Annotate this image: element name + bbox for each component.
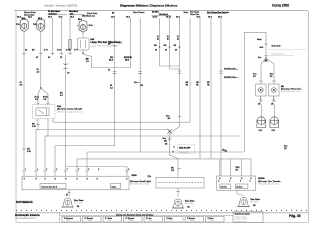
svg-text:(X) Interr. Lamp. Dirección: (X) Interr. Lamp. Dirección: [57, 110, 83, 113]
junction dots right cluster: [159, 46, 161, 48]
svg-text:5: 5: [240, 180, 241, 182]
svg-text:30-8: 30-8: [109, 60, 113, 62]
svg-text:1/5: 1/5: [253, 205, 256, 207]
headlamp E1 (left): [16, 18, 28, 32]
wire lamp E19 to box: [82, 32, 84, 38]
svg-text:XXX 30 XXP: XXX 30 XXP: [179, 147, 191, 149]
svg-text:4: 4: [250, 179, 251, 182]
svg-text:Xxx: Xxx: [170, 220, 173, 222]
svg-text:5: 5: [88, 169, 89, 171]
svg-text:2.5: 2.5: [37, 71, 40, 73]
wire x179.5: [170, 18, 180, 178]
svg-text:Iluminação Externa: Iluminação Externa: [15, 213, 40, 217]
connector ticks on merged wire: [178, 70, 182, 72]
svg-text:0.5: 0.5: [270, 76, 273, 78]
svg-text:7: 7: [67, 169, 68, 171]
svg-text:0.5: 0.5: [35, 99, 38, 101]
svg-text:0.35: 0.35: [32, 126, 36, 128]
tick and label on wire x179.5 low: [178, 116, 182, 118]
svg-text:(X) Lamp. Tipo Trasera: (X) Lamp. Tipo Trasera: [258, 184, 279, 186]
svg-text:1/8: 1/8: [164, 140, 167, 142]
svg-text:Xxxxxxx xxxx xx: Xxxxxxx xxxx xx: [272, 53, 286, 55]
connector box E1000: [217, 176, 256, 190]
tick on x114.6 upper: [113, 45, 117, 47]
S14 bottom pin ticks: [37, 119, 40, 121]
svg-text:XXXXXX-XXs ---: XXXXXX-XXs ---: [224, 69, 239, 71]
annotation note box mid: [178, 144, 195, 154]
svg-text:30: 30: [67, 73, 69, 75]
E1000 feed wires: [219, 159, 221, 176]
svg-text:(X) Lamp. Placa # Lic.: (X) Lamp. Placa # Lic.: [281, 91, 301, 93]
svg-text:0.5: 0.5: [60, 95, 63, 97]
svg-text:1/5: 1/5: [168, 118, 171, 120]
earth point bell right: [237, 197, 260, 206]
titleblock top line: [16, 212, 309, 214]
wire supply col mid x65.5: [65, 55, 67, 170]
lamp E9 right: [269, 84, 280, 96]
wire split left branch: [38, 88, 41, 105]
wire split right branch: [41, 88, 48, 105]
tail lamp bulb left: [257, 105, 266, 133]
svg-text:2 F30: 2 F30: [66, 49, 71, 51]
E1000 top pin marks: [219, 178, 252, 180]
svg-text:36-8: 36-8: [28, 16, 32, 18]
svg-text:Xxx ---: Xxx ---: [134, 82, 140, 84]
earth point bell mid: [172, 199, 195, 208]
license lamp loop top: [244, 32, 266, 152]
tick on headlamp wire low: [22, 148, 26, 150]
svg-text:30: 30: [175, 50, 177, 52]
tail lamp bulb right: [270, 105, 279, 133]
svg-text:30: 30: [165, 50, 167, 52]
svg-text:1/5: 1/5: [235, 170, 238, 172]
svg-text:Xxx Xxxxxx: Xxx Xxxxxx: [218, 12, 230, 14]
svg-text:Xxx. Xxxx: Xxx. Xxxx: [185, 203, 193, 205]
svg-text:Versão / Version 1997/02: Versão / Version 1997/02: [44, 3, 78, 7]
wire number labels row: [17, 15, 222, 18]
svg-text:Xxx Xx Xxx Xx X: Xxx Xx Xxx Xx X: [42, 186, 58, 188]
connector strip X50 (dashes): [156, 178, 204, 189]
svg-text:1/5: 1/5: [187, 206, 190, 208]
fuse row terminal ticks: [22, 53, 71, 55]
wire S14 left pin down: [36, 121, 38, 130]
svg-text:Xxx: Xxx: [211, 220, 214, 222]
titleblock divider: [59, 213, 61, 223]
wire x190: [189, 18, 191, 122]
junction X on headlamp wire: [38, 87, 48, 105]
ground wire below E1000: [236, 190, 238, 194]
svg-text:Corsa 2002: Corsa 2002: [272, 3, 289, 7]
lamp E9 left (license plate): [256, 84, 267, 96]
connector ticks on x114.6: [113, 72, 142, 74]
svg-text:X11: X11: [110, 57, 113, 59]
tick on S14 left pin wire: [36, 124, 40, 126]
staircase wire h2: [45, 136, 240, 170]
wire from E19 out: [83, 50, 115, 68]
svg-text:Xxx: Xxx: [149, 220, 152, 222]
svg-text:30-8: 30-8: [89, 25, 93, 27]
svg-text:6: 6: [46, 169, 47, 171]
svg-text:Diagramas Elétricos | Diagrama: Diagramas Elétricos | Diagramas Eléctric…: [120, 3, 178, 7]
legend cells: [62, 216, 224, 222]
header rule: [14, 10, 308, 12]
svg-text:2.5: 2.5: [110, 87, 113, 89]
svg-text:30: 30: [25, 49, 27, 51]
svg-text:X1: X1: [108, 70, 110, 72]
svg-text:30-8: 30-8: [126, 16, 130, 18]
svg-text:Xxxx Xxxx: Xxxx Xxxx: [87, 13, 98, 15]
ground stub below E9 left: [259, 96, 263, 101]
svg-text:Xx Xxx: Xx Xxx: [221, 187, 228, 189]
svg-text:4 F3: 4 F3: [57, 48, 61, 51]
wire from headlamp E1 down to connector X106: [23, 31, 25, 170]
ground wire below E100: [68, 190, 70, 197]
wire mid x130 top: [115, 18, 131, 68]
legend header band line: [60, 215, 234, 217]
svg-text:30 30A: 30 30A: [152, 11, 159, 14]
svg-text:1/5: 1/5: [284, 148, 287, 150]
staircase wire h4: [87, 152, 244, 170]
svg-text:0.35: 0.35: [27, 151, 31, 153]
connector pin row above X106: [22, 170, 128, 172]
dotted separator line: [16, 210, 307, 211]
svg-text:30-8: 30-8: [48, 16, 52, 18]
page right border: [308, 11, 310, 222]
svg-text:(X) Lamp. Freno Esp.: (X) Lamp. Freno Esp.: [130, 183, 150, 185]
svg-text:3: 3: [218, 180, 219, 182]
svg-text:30A Maxi xxx: 30A Maxi xxx: [82, 15, 96, 18]
svg-text:36-8: 36-8: [17, 16, 21, 18]
svg-text:1/5: 1/5: [271, 104, 274, 106]
svg-text:(X) Interr. Lamp. Direção: (X) Interr. Lamp. Direção: [57, 108, 83, 111]
svg-text:E1000: E1000: [258, 178, 265, 180]
svg-text:30-10: 30-10: [153, 16, 158, 18]
svg-text:30-8: 30-8: [260, 47, 264, 49]
svg-text:Xxxxx: Xxxxx: [190, 220, 195, 222]
branch to E9 right: [266, 58, 274, 84]
E1000 inner boxes: [220, 184, 231, 189]
staircase wire h5 bus: [77, 159, 251, 170]
staircase wire h3: [55, 146, 115, 170]
svg-text:0.5: 0.5: [253, 76, 256, 78]
ground stub below E9 right: [272, 96, 276, 101]
svg-text:Xxxxx: Xxxxx: [88, 220, 93, 222]
svg-text:1/5: 1/5: [165, 144, 168, 146]
connector ticks on wire x221: [219, 70, 223, 72]
svg-text:(F): (F): [32, 49, 35, 51]
svg-text:1: 1: [25, 169, 26, 171]
svg-text:30: 30: [155, 50, 157, 52]
wire x159.5: [160, 18, 180, 66]
E100 inner label boxes: [40, 184, 66, 189]
lamp E19 head (front ind lamp): [76, 13, 98, 32]
svg-text:Xx Xxx: Xx Xxx: [236, 187, 243, 189]
svg-text:1/5: 1/5: [171, 170, 174, 172]
svg-text:2: 2: [229, 180, 230, 182]
svg-text:30-10: 30-10: [167, 35, 169, 40]
arrow mark E19 out: [82, 53, 84, 55]
top label band: [24, 10, 230, 17]
svg-text:Pág. 36: Pág. 36: [289, 214, 301, 218]
svg-text:Xxxx Xxxxx: Xxxx Xxxxx: [133, 12, 145, 14]
svg-text:5: 5: [173, 151, 174, 153]
connector on wire x65.5: [64, 64, 68, 70]
headlamp E2: [33, 18, 45, 32]
svg-text:Xxxxxxx xxx xxxxx: Xxxxxxx xxx xxxxx: [235, 213, 250, 215]
svg-text:30-10: 30-10: [166, 16, 171, 18]
svg-text:30-8: 30-8: [125, 60, 129, 62]
svg-text:30-10: 30-10: [177, 35, 179, 40]
box E19 Lamp. Pid. Insr (Dian/Resp): [78, 38, 90, 50]
svg-text:Xxx. Xxx: Xxx. Xxx: [251, 201, 258, 203]
wire from headlamp E2 to junction: [40, 31, 42, 88]
bottom frame line: [16, 222, 309, 224]
svg-text:Lamp. Pid. Insr. (Dian/Resp.): Lamp. Pid. Insr. (Dian/Resp.): [91, 42, 122, 44]
svg-text:1/5: 1/5: [258, 104, 261, 106]
switch S14 dashed box: [33, 103, 84, 120]
ground wire below strip: [177, 188, 179, 197]
tick on loop wire: [264, 43, 267, 45]
E100 pin number labels: [25, 168, 129, 171]
svg-text:Xxxx: Xxxx: [184, 12, 190, 14]
supply wire 30 col3 with fuse: [69, 18, 71, 55]
svg-text:0.5: 0.5: [20, 84, 23, 86]
svg-text:2: 2: [78, 169, 79, 171]
supply wire 30 col2: [61, 18, 63, 55]
staircase wire h1: [36, 130, 170, 171]
S14 inner contact box: [36, 108, 49, 116]
wire main mid x114.6: [114, 18, 116, 146]
svg-text:NOTHBRECR: NOTHBRECR: [16, 200, 33, 204]
connector box E100: [22, 176, 129, 190]
wire x200: [199, 18, 201, 159]
svg-text:3: 3: [56, 169, 57, 171]
info cell: [233, 212, 263, 223]
header underline col1: [48, 14, 68, 16]
S14 top pin ticks: [37, 102, 40, 104]
supply wire 30 col1: [52, 18, 54, 55]
pin stubs into box: [24, 171, 87, 176]
svg-text:1/5: 1/5: [225, 150, 228, 152]
connector ticks below junction: [168, 137, 172, 139]
svg-text:1 F1: 1 F1: [44, 49, 48, 51]
wire mid x140: [139, 18, 141, 152]
E100 pin numbers strip: [24, 178, 128, 180]
svg-text:Xxx. Xxxx: Xxx. Xxxx: [74, 202, 82, 204]
loop split junction: [264, 59, 268, 62]
svg-text:8: 8: [98, 169, 99, 171]
wire x211: [210, 18, 212, 159]
page left border: [15, 11, 17, 222]
svg-text:30-10: 30-10: [157, 35, 159, 40]
svg-text:Xxx: Xxx: [108, 220, 111, 222]
svg-text:1.5: 1.5: [86, 61, 89, 63]
svg-text:XXXXXX-XXs ---: XXXXXX-XXs ---: [224, 77, 239, 79]
svg-text:30-8: 30-8: [111, 16, 115, 18]
svg-text:XXXXXXXX: XXXXXXXX: [179, 152, 190, 154]
S14 pin3 stub and long wire h0: [53, 118, 190, 122]
svg-text:Xxx: Xxx: [67, 220, 70, 222]
staircase wire h6: [66, 167, 128, 177]
svg-text:7 F7: 7 F7: [74, 49, 78, 51]
svg-text:E100: E100: [132, 175, 138, 177]
fuse row labels: [25, 48, 78, 59]
svg-text:Xxxx 39-X: Xxxx 39-X: [272, 45, 282, 47]
earth point bell left: [62, 198, 85, 208]
svg-text:30A Maxi: 30A Maxi: [49, 13, 58, 16]
junction X mid-low: [167, 129, 172, 134]
connector ticks on x140: [138, 71, 142, 73]
svg-text:30-8: 30-8: [70, 16, 74, 18]
svg-text:Xxx Xxxxx: Xxx Xxxxx: [207, 12, 218, 14]
wire S14 right pin down: [45, 121, 48, 136]
svg-text:0.5: 0.5: [44, 99, 47, 101]
wire x221: [220, 18, 222, 176]
svg-text:1/5: 1/5: [77, 206, 80, 208]
fuse F30: [69, 40, 72, 50]
svg-text:9: 9: [128, 169, 129, 171]
ticks above E9 boxes: [259, 80, 263, 82]
svg-text:Xxx: Xxx: [258, 57, 261, 59]
branch to E9 left: [261, 58, 266, 84]
svg-text:Iluminação Exterior: Iluminação Exterior: [16, 217, 36, 220]
wire x169.5: [170, 18, 180, 69]
svg-text:Xxxxx: Xxxxx: [129, 220, 134, 222]
svg-text:X112X13: X112X13: [124, 57, 132, 59]
